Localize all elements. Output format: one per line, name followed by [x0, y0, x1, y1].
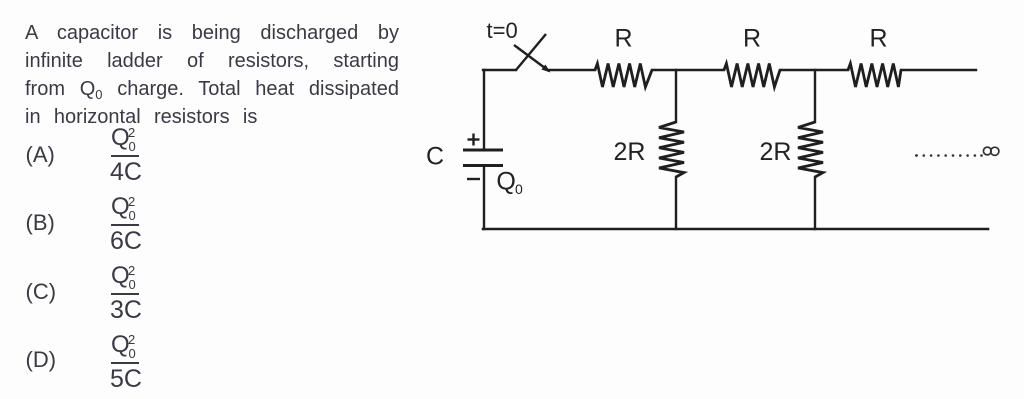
- svg-text:2R: 2R: [760, 138, 792, 166]
- svg-text:R: R: [869, 25, 887, 53]
- svg-text:R: R: [614, 25, 632, 53]
- svg-text:C: C: [426, 143, 444, 171]
- svg-text:Q: Q: [496, 168, 515, 196]
- svg-text:R: R: [743, 25, 761, 53]
- svg-text:0: 0: [515, 181, 523, 197]
- svg-text:2R: 2R: [614, 138, 646, 166]
- svg-text:t=0: t=0: [487, 18, 518, 43]
